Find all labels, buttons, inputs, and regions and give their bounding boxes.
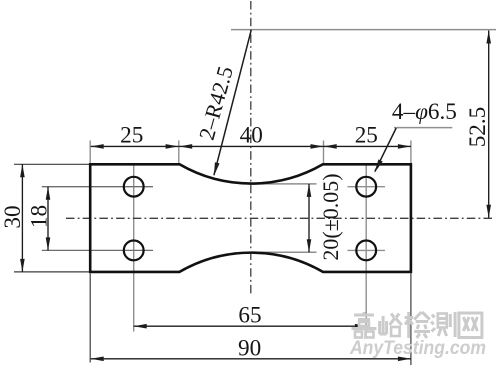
svg-text:20(±0.05): 20(±0.05) bbox=[318, 173, 343, 260]
wire: extension line at left edge (top dims) bbox=[89, 141, 91, 164]
wire: extension line below left edge (90 dim) bbox=[89, 274, 91, 363]
svg-text:25: 25 bbox=[120, 123, 143, 149]
wire: extension line neck bottom (20 dim) bbox=[250, 251, 317, 253]
dimension line 20 (neck) bbox=[308, 184, 310, 252]
svg-text:65: 65 bbox=[238, 303, 261, 329]
svg-text:18: 18 bbox=[26, 205, 52, 228]
svg-text:AnyTesting.com: AnyTesting.com bbox=[349, 337, 486, 359]
dimension line 52.5 bbox=[488, 31, 490, 218]
wire: horizontal centermark left-top hole bbox=[42, 186, 153, 188]
dimension line 18 bbox=[47, 187, 49, 251]
wire: vertical centermark through right holes bbox=[365, 166, 367, 335]
hole bottom-right (phi 6.5) bbox=[356, 241, 376, 261]
svg-text:30: 30 bbox=[0, 205, 26, 228]
wire: horizontal dash-dot centerline bbox=[66, 217, 495, 219]
hole top-right (phi 6.5) bbox=[356, 177, 376, 197]
hole bottom-left (phi 6.5) bbox=[124, 241, 144, 261]
watermark char 4 (ce) bbox=[431, 312, 455, 337]
leader line 2-R42.5 bbox=[214, 30, 251, 175]
wire: extension line bottom-left (30 dim) bbox=[14, 271, 89, 273]
dimension line 25 left bbox=[91, 145, 179, 147]
dimension line 40 bbox=[179, 145, 324, 147]
wire: extension line at right edge (top dims) bbox=[410, 141, 412, 164]
watermark char 2 (yu) bbox=[380, 314, 402, 337]
wire: extension line neck top (20 dim) bbox=[249, 183, 317, 185]
wire: horizontal centermark right-bottom hole bbox=[348, 249, 386, 251]
wire: vertical centermark through left holes bbox=[133, 166, 135, 332]
wire: underline of hole label bbox=[394, 127, 452, 129]
watermark char 1 (jia) bbox=[352, 312, 377, 338]
wire: horizontal centermark left-bottom hole bbox=[42, 249, 153, 251]
wire: extension line below right edge (90 dim) bbox=[410, 274, 412, 366]
wire: extension line at left tangent (top dims) bbox=[178, 141, 180, 164]
svg-text:40: 40 bbox=[240, 123, 263, 149]
svg-text:90: 90 bbox=[238, 335, 261, 361]
wire: top horizontal datum line bbox=[231, 29, 496, 31]
wire: horizontal centermark right-top hole bbox=[348, 186, 386, 188]
wire: extension line top-left (30 dim) bbox=[14, 163, 89, 165]
dimension line 65 bbox=[134, 325, 368, 327]
watermark char 5 (wang) bbox=[459, 313, 482, 338]
svg-text:25: 25 bbox=[355, 123, 378, 149]
specimen outline (dog-bone) bbox=[90, 164, 411, 272]
wire: vertical dash-dot centerline bbox=[250, 1, 252, 297]
svg-text:52.5: 52.5 bbox=[465, 107, 491, 148]
dimension line 25 right bbox=[324, 145, 411, 147]
wire: extension line at right tangent (top dims) bbox=[323, 141, 325, 164]
hole top-left (phi 6.5) bbox=[124, 177, 144, 197]
dimension line 30 bbox=[21, 164, 23, 272]
leader line 4-phi6.5 bbox=[375, 128, 396, 172]
watermark char 3 (jian) bbox=[405, 312, 430, 338]
dimension line 90 bbox=[91, 358, 411, 360]
svg-text:4–φ6.5: 4–φ6.5 bbox=[392, 99, 457, 125]
